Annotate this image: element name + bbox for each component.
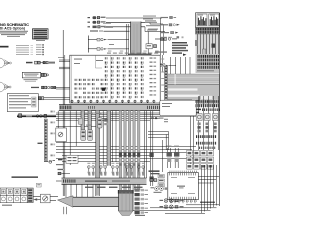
fuse block lower band — [196, 27, 220, 34]
harness entry strip — [164, 67, 167, 109]
cluster above right block — [155, 42, 188, 56]
right legend row 1 — [161, 16, 177, 18]
bus to band verticals — [64, 184, 93, 214]
connector CN3 — [39, 97, 70, 100]
revision table — [33, 29, 49, 41]
instrument cluster box — [7, 94, 38, 112]
left feed symbols — [56, 169, 70, 181]
work light row — [90, 30, 130, 31]
relay panel box — [70, 55, 160, 103]
harness bus left — [17, 114, 56, 118]
mid wire bundle A — [17, 113, 196, 120]
right legend row 3 — [161, 31, 179, 33]
left vertical wire — [63, 30, 65, 105]
key switch box — [56, 128, 67, 142]
strip side taps — [51, 111, 56, 157]
starter M2 — [0, 82, 11, 92]
label under ACS box — [24, 79, 38, 81]
panel header labels — [107, 51, 159, 56]
vertical harness bundle — [118, 190, 145, 216]
legend text column — [16, 45, 33, 55]
switch SW3 — [97, 118, 102, 128]
lamp L2 row — [160, 205, 184, 209]
panel bottom connector stubs — [71, 100, 155, 103]
legend symbol column — [36, 44, 44, 55]
fuel row label — [31, 87, 39, 88]
bottom gray bus — [62, 178, 147, 184]
label four-terminal — [26, 62, 33, 64]
right edge wire — [218, 13, 220, 206]
wire to relay K1 — [33, 197, 40, 201]
ECU pin numbers top — [170, 171, 197, 172]
panel right text columns — [150, 57, 157, 95]
harness bottom labels — [188, 109, 201, 113]
gray vertical pair 2 — [96, 111, 111, 196]
marks left of switch box — [56, 159, 64, 165]
alternator M1 — [0, 58, 11, 68]
relay K1 — [41, 194, 59, 203]
central wire comb — [113, 111, 147, 191]
right strip chains — [196, 123, 217, 150]
small relay boxes right of bus — [146, 38, 177, 49]
panel fuse grid right — [105, 57, 144, 99]
panel grid left lower — [75, 79, 106, 98]
mid wire bundle B — [56, 116, 194, 165]
right legend row 4 — [161, 36, 184, 38]
small box with terminals — [66, 155, 78, 163]
acs harness label — [200, 202, 215, 203]
ACS controller box — [22, 72, 40, 78]
ECU pin numbers bottom — [170, 200, 197, 201]
gray vertical pair 1 — [81, 111, 91, 131]
right block barcode rows — [196, 54, 220, 73]
vertical wires below panel — [58, 111, 103, 196]
mid wire bundle C — [56, 147, 196, 162]
panel outside right labels — [161, 59, 164, 93]
beacon row — [88, 26, 166, 32]
aux components near switches — [78, 113, 108, 126]
items under relay module — [151, 117, 168, 122]
horn H1 row — [88, 16, 163, 24]
switch SW2 — [88, 130, 93, 141]
main harness gray region — [168, 74, 220, 108]
bracket circuit — [88, 36, 129, 53]
aux box above relay — [37, 183, 42, 187]
harness wedge — [58, 196, 119, 207]
connector CN2 — [41, 73, 48, 76]
ecu right wires — [133, 165, 219, 214]
label CA4 — [38, 143, 43, 144]
legend heading — [0, 46, 9, 48]
bus top labels — [143, 18, 160, 29]
verticals into gray region — [143, 55, 191, 74]
relay module box — [160, 96, 200, 116]
drop wires to panel — [127, 24, 149, 55]
right legend row 2 — [161, 24, 180, 26]
relay box grid — [187, 151, 214, 170]
engine harness label — [12, 176, 39, 178]
horn H2 row — [88, 20, 164, 28]
panel left entry wires — [58, 57, 70, 69]
CA tap left of gray region — [159, 63, 177, 67]
transistor pair Q1 Q2 — [167, 146, 180, 168]
fuel row symbols — [42, 86, 70, 89]
indicator row mid — [151, 187, 168, 193]
ecu bottom pin wires — [171, 200, 195, 204]
right connector strip — [196, 96, 221, 150]
fuse block F1 — [196, 13, 220, 27]
bus labels row — [85, 187, 143, 188]
cluster right of bundle — [149, 170, 160, 181]
title note text — [0, 31, 28, 37]
connector CN1 — [35, 61, 56, 64]
gauge label — [2, 205, 12, 206]
main gray bus vertical — [131, 22, 142, 56]
right strip relay circles — [197, 114, 219, 121]
wires below fuse block — [195, 34, 220, 54]
sender group 1 — [87, 163, 144, 176]
lamp L1 row — [160, 199, 184, 203]
ECU box — [168, 173, 199, 200]
gauge connector hatch — [27, 188, 33, 203]
bus under panel — [59, 105, 196, 111]
stacked components column — [135, 189, 149, 215]
connector strip CA1 — [44, 119, 47, 160]
switch SW1 — [81, 130, 86, 141]
panel interior labels — [74, 55, 103, 68]
right side verticals — [150, 111, 163, 186]
ground AA — [44, 160, 55, 163]
row jog wires — [161, 18, 164, 55]
svg-text:ith ACS Option): ith ACS Option) — [0, 26, 25, 30]
fuse links column — [158, 175, 164, 187]
gauge cluster strip — [0, 188, 27, 203]
